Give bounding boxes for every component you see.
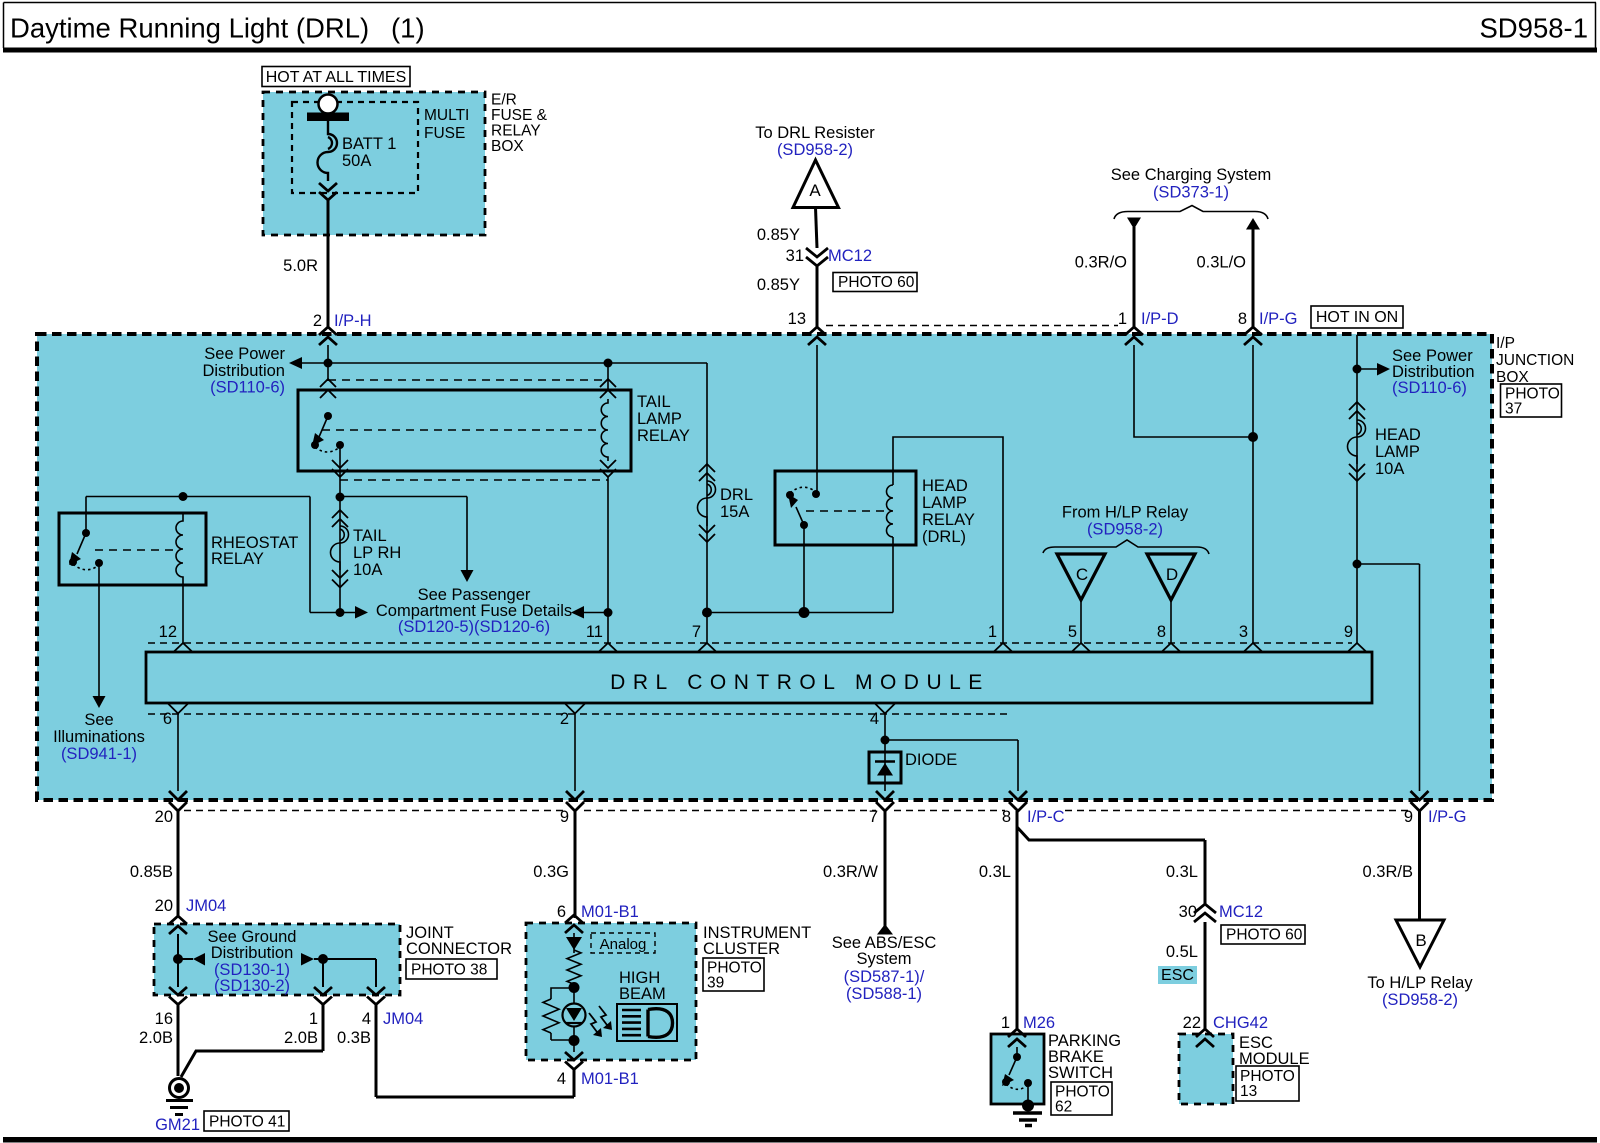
svg-text:3: 3 xyxy=(1239,623,1248,641)
svg-text:BOX: BOX xyxy=(491,138,524,155)
svg-text:I/P: I/P xyxy=(1496,335,1515,352)
rheostat coil xyxy=(176,513,183,585)
node diode branch xyxy=(881,736,890,745)
svg-text:(SD110-6): (SD110-6) xyxy=(1392,379,1467,397)
svg-text:5: 5 xyxy=(1068,623,1077,641)
svg-text:(SD941-1): (SD941-1) xyxy=(61,745,137,763)
jm04 exit chevrons pin 4 xyxy=(367,987,385,1005)
svg-text:0.3B: 0.3B xyxy=(337,1029,371,1047)
svg-text:(1): (1) xyxy=(391,13,425,44)
arrow to left power distribution xyxy=(289,357,302,369)
connector B xyxy=(1396,920,1444,967)
tail relay switch xyxy=(324,412,332,420)
svg-text:(SD958-2): (SD958-2) xyxy=(1382,991,1458,1009)
head relay coil xyxy=(887,485,894,537)
svg-text:2: 2 xyxy=(560,710,569,728)
svg-text:MC12: MC12 xyxy=(1219,903,1263,921)
svg-text:1: 1 xyxy=(988,623,997,641)
svg-text:16: 16 xyxy=(155,1010,173,1028)
svg-text:20: 20 xyxy=(155,897,173,915)
svg-text:0.3L: 0.3L xyxy=(1166,863,1198,881)
wire head relay coil top to pin 1 xyxy=(893,437,1003,643)
svg-text:I/P-G: I/P-G xyxy=(1428,808,1467,826)
wire led xyxy=(573,984,575,1004)
wire 0.3L right branch xyxy=(1017,827,1205,904)
svg-text:I/P-C: I/P-C xyxy=(1027,808,1065,826)
label Analog xyxy=(591,933,655,953)
svg-text:A: A xyxy=(809,181,821,200)
relay TAIL LAMP RELAY box xyxy=(298,390,631,471)
svg-text:Distribution: Distribution xyxy=(202,362,285,380)
JOINT CONNECTOR JM04 box xyxy=(154,924,400,995)
right See Power Distribution note xyxy=(1356,335,1358,643)
head relay internal dashed xyxy=(806,510,886,512)
svg-text:22: 22 xyxy=(1183,1014,1201,1032)
svg-text:13: 13 xyxy=(1240,1083,1257,1100)
jm04 internal wires xyxy=(178,934,376,987)
arrow up to charging system xyxy=(1246,218,1260,230)
fuse BATT 1 50A terminal circle xyxy=(319,95,338,114)
jm04 exit chevrons pin 1 xyxy=(314,987,332,1005)
relay HEAD LAMP RELAY box xyxy=(775,471,916,545)
wire I/P-D feed xyxy=(1134,345,1253,437)
svg-text:D: D xyxy=(1166,565,1178,584)
svg-text:SWITCH: SWITCH xyxy=(1048,1064,1113,1082)
svg-text:4: 4 xyxy=(557,1070,566,1088)
box-bottom connector pin 9 (0.3G) xyxy=(566,791,584,811)
parking brake ground xyxy=(1027,1083,1029,1102)
svg-text:20: 20 xyxy=(155,808,173,826)
node on tail relay coil wire xyxy=(604,359,613,368)
svg-text:4: 4 xyxy=(362,1010,371,1028)
node cluster bottom xyxy=(569,1035,580,1046)
svg-text:From H/LP Relay: From H/LP Relay xyxy=(1062,504,1189,522)
tail relay exit chevrons right xyxy=(600,460,616,477)
fuse TAIL LP RH 10A xyxy=(332,510,348,527)
wire 0.85B xyxy=(177,811,180,916)
svg-text:12: 12 xyxy=(159,623,177,641)
svg-text:9: 9 xyxy=(1344,623,1353,641)
svg-text:9: 9 xyxy=(1404,808,1413,826)
svg-text:M26: M26 xyxy=(1023,1014,1055,1032)
svg-text:8: 8 xyxy=(1002,808,1011,826)
wire pin2 to relay xyxy=(327,345,329,381)
svg-text:2.0B: 2.0B xyxy=(139,1029,173,1047)
wire I/P-G feed to pin 3 xyxy=(1252,345,1254,643)
svg-text:Analog: Analog xyxy=(600,936,647,953)
node above fuse TAIL LP RH xyxy=(336,493,345,502)
svg-text:LP RH: LP RH xyxy=(353,544,401,562)
svg-text:FUSE: FUSE xyxy=(424,125,465,142)
svg-text:I/P-D: I/P-D xyxy=(1141,310,1179,328)
node DRL fuse bottom xyxy=(702,608,712,618)
svg-text:0.85B: 0.85B xyxy=(130,863,173,881)
svg-text:1: 1 xyxy=(1001,1014,1010,1032)
svg-text:HEAD: HEAD xyxy=(922,477,968,495)
svg-text:PHOTO 60: PHOTO 60 xyxy=(1226,927,1303,944)
svg-text:62: 62 xyxy=(1055,1099,1072,1116)
svg-text:I/P-G: I/P-G xyxy=(1259,310,1298,328)
svg-text:0.3R/B: 0.3R/B xyxy=(1363,863,1413,881)
bottom connector dashed row xyxy=(184,810,1412,812)
brace xyxy=(1114,206,1268,220)
wire 5.0R xyxy=(327,200,330,327)
wire 0.3L left xyxy=(1016,811,1019,1030)
box-bottom connector pin 9 I/P-G xyxy=(1411,791,1429,811)
svg-text:(SD130-2): (SD130-2) xyxy=(214,977,290,995)
svg-text:39: 39 xyxy=(707,975,724,992)
svg-text:0.3R/W: 0.3R/W xyxy=(823,863,878,881)
svg-text:7: 7 xyxy=(869,808,878,826)
tail relay entry chevrons left xyxy=(320,379,336,398)
svg-text:(SD588-1): (SD588-1) xyxy=(846,985,922,1003)
svg-text:M01-B1: M01-B1 xyxy=(581,903,639,921)
ESC MODULE box xyxy=(1179,1034,1233,1104)
fuse HEAD LAMP 10A xyxy=(1349,402,1365,419)
wire C to pin 5 xyxy=(1080,600,1082,643)
node on tail coil output xyxy=(604,608,613,617)
wire DRL fuse feed xyxy=(706,363,708,643)
wire 0.3R/W xyxy=(884,811,887,926)
svg-text:See Power: See Power xyxy=(204,345,285,363)
wire 0.3B xyxy=(376,1005,574,1097)
svg-text:FUSE &: FUSE & xyxy=(491,107,548,124)
photo flash arrow xyxy=(589,1013,597,1032)
svg-text:37: 37 xyxy=(1505,401,1522,418)
svg-text:See: See xyxy=(84,711,113,729)
svg-text:LAMP: LAMP xyxy=(1375,443,1420,461)
tail relay coil wire upper xyxy=(607,363,609,390)
arrow left to fuse details xyxy=(571,606,584,619)
node head lamp branch xyxy=(1353,560,1362,569)
resistor top xyxy=(567,950,581,984)
svg-text:JM04: JM04 xyxy=(186,897,226,915)
svg-text:DIODE: DIODE xyxy=(905,751,957,769)
svg-text:HEAD: HEAD xyxy=(1375,426,1421,444)
arrow down from charging system xyxy=(1127,218,1141,230)
wire head relay coil bottom xyxy=(892,537,894,613)
node below fuse TAIL LP RH xyxy=(336,608,345,617)
rheostat top bus xyxy=(86,497,310,534)
cluster exit xyxy=(573,1041,575,1052)
wire pin 6 down xyxy=(177,714,179,791)
svg-text:0.3L: 0.3L xyxy=(979,863,1011,881)
DRL CONTROL MODULE box xyxy=(146,652,1372,703)
svg-text:HOT AT ALL TIMES: HOT AT ALL TIMES xyxy=(266,69,407,86)
svg-text:0.85Y: 0.85Y xyxy=(757,226,800,244)
wire top bus xyxy=(302,362,707,364)
svg-text:LAMP: LAMP xyxy=(637,410,682,428)
wire to passenger compartment arrow xyxy=(340,497,467,571)
wire 0.3L/O xyxy=(1252,228,1255,327)
svg-text:0.3G: 0.3G xyxy=(533,863,569,881)
parking brake switch xyxy=(1016,1047,1018,1056)
svg-text:31: 31 xyxy=(786,247,804,265)
indicator lamp HIGH BEAM xyxy=(563,1004,586,1027)
box-bottom connector pin 7 (0.3R/W) xyxy=(876,791,894,811)
svg-text:4: 4 xyxy=(870,710,879,728)
rheostat internal dashed xyxy=(95,549,174,551)
PARKING BRAKE SWITCH box xyxy=(991,1034,1044,1104)
svg-text:0.5L: 0.5L xyxy=(1166,943,1198,961)
svg-text:(SD587-1)/: (SD587-1)/ xyxy=(844,968,925,986)
ESC highlight xyxy=(1158,966,1197,984)
tail relay exit chevrons left xyxy=(332,460,348,477)
svg-text:HOT IN ON: HOT IN ON xyxy=(1316,309,1398,326)
svg-text:(SD120-5)(SD120-6): (SD120-5)(SD120-6) xyxy=(398,618,550,636)
fuse DRL 15A xyxy=(699,464,715,481)
arrow right to fuse details xyxy=(355,606,368,619)
svg-text:15A: 15A xyxy=(720,503,749,521)
svg-text:6: 6 xyxy=(163,710,172,728)
MULTI FUSE inner box xyxy=(292,102,418,193)
svg-text:SD958-1: SD958-1 xyxy=(1479,13,1588,44)
svg-text:10A: 10A xyxy=(1375,460,1404,478)
arrow to ground distribution right xyxy=(301,953,314,966)
svg-text:RELAY: RELAY xyxy=(922,511,975,529)
connector chevrons below fuse xyxy=(319,183,337,200)
wire rheostat switch to illuminations xyxy=(98,563,100,696)
svg-text:11: 11 xyxy=(586,623,603,641)
svg-text:C: C xyxy=(1076,565,1088,584)
svg-text:1: 1 xyxy=(1118,310,1127,328)
tail relay coil xyxy=(601,399,608,461)
node rheostat coil top xyxy=(179,492,188,501)
module pin row dashed top xyxy=(148,642,1352,644)
svg-text:PHOTO 60: PHOTO 60 xyxy=(838,274,915,291)
svg-text:0.3R/O: 0.3R/O xyxy=(1075,254,1127,272)
node charging join xyxy=(1248,432,1258,442)
fuse BATT 1 50A bar xyxy=(307,113,349,122)
title bar xyxy=(3,48,1597,53)
high beam icon xyxy=(617,1004,677,1041)
dashed link below tail relay xyxy=(340,479,608,481)
wire pin 4 down xyxy=(884,714,886,791)
svg-text:PHOTO 41: PHOTO 41 xyxy=(209,1114,285,1131)
svg-text:1: 1 xyxy=(309,1010,318,1028)
svg-text:M01-B1: M01-B1 xyxy=(581,1070,639,1088)
connector D xyxy=(1147,554,1195,600)
wire 0.3G xyxy=(574,811,577,918)
svg-text:TAIL: TAIL xyxy=(353,527,387,545)
svg-text:B: B xyxy=(1415,931,1426,950)
ground GM21 xyxy=(170,1079,189,1098)
svg-text:See Charging System: See Charging System xyxy=(1111,166,1272,184)
node jm04 right xyxy=(318,954,328,964)
svg-text:50A: 50A xyxy=(342,152,371,170)
wire head relay switch output xyxy=(803,525,805,613)
node jm04 left xyxy=(173,954,183,964)
svg-text:(SD373-1): (SD373-1) xyxy=(1153,184,1229,202)
svg-text:CHG42: CHG42 xyxy=(1213,1014,1268,1032)
wire head relay bottom bus xyxy=(707,612,893,614)
box-bottom connector pin 20 xyxy=(169,791,187,811)
wire pin 2 down xyxy=(574,714,576,791)
svg-text:PHOTO 38: PHOTO 38 xyxy=(411,962,487,979)
wire 2.0B right to ground xyxy=(181,1005,323,1077)
svg-text:CONNECTOR: CONNECTOR xyxy=(406,940,512,958)
jm04 exit chevrons pin 16 xyxy=(169,987,187,1005)
svg-text:CLUSTER: CLUSTER xyxy=(703,940,780,958)
bottom bar xyxy=(3,1137,1597,1143)
svg-text:I/P-H: I/P-H xyxy=(334,312,372,330)
label HOT IN ON xyxy=(1311,306,1403,328)
svg-text:(SD958-2): (SD958-2) xyxy=(777,141,853,159)
svg-text:0.85Y: 0.85Y xyxy=(757,276,800,294)
svg-text:LAMP: LAMP xyxy=(922,494,967,512)
svg-text:JM04: JM04 xyxy=(383,1010,423,1028)
svg-text:(SD958-2): (SD958-2) xyxy=(1087,521,1163,539)
arrow to ground distribution left xyxy=(193,953,205,966)
svg-text:JUNCTION: JUNCTION xyxy=(1496,352,1574,369)
wire 0.3R/O xyxy=(1133,227,1136,327)
svg-text:TAIL: TAIL xyxy=(637,393,671,411)
svg-text:System: System xyxy=(856,950,911,968)
wire tail coil to pin 11 xyxy=(607,477,609,643)
wire 0.3R/B xyxy=(1418,811,1421,920)
svg-text:MULTI: MULTI xyxy=(424,107,469,124)
svg-text:RELAY: RELAY xyxy=(491,123,541,140)
wire branch to bottom pin 9 xyxy=(1357,564,1420,791)
svg-text:RELAY: RELAY xyxy=(211,550,264,568)
svg-text:(DRL): (DRL) xyxy=(922,528,966,546)
dashed link above tail relay xyxy=(328,379,608,381)
E/R FUSE & RELAY BOX xyxy=(263,92,485,235)
wire 0.85Y lower xyxy=(816,266,819,327)
cluster feed arrow xyxy=(573,933,575,953)
wire 0.5L xyxy=(1204,922,1207,1030)
svg-text:13: 13 xyxy=(788,310,806,328)
rheostat switch xyxy=(82,529,90,537)
relay RHEOSTAT RELAY box xyxy=(59,513,206,585)
fuse BATT 1 50A fusible link xyxy=(318,121,338,181)
svg-text:8: 8 xyxy=(1238,310,1247,328)
svg-text:RELAY: RELAY xyxy=(637,427,690,445)
connector C xyxy=(1057,554,1105,600)
label PHOTO 60 xyxy=(833,273,917,292)
svg-text:(SD110-6): (SD110-6) xyxy=(210,379,285,397)
svg-text:5.0R: 5.0R xyxy=(283,257,318,275)
tail relay internal dashed xyxy=(322,429,598,431)
svg-text:BEAM: BEAM xyxy=(619,985,666,1003)
wire diode branch to I/P-C xyxy=(885,740,1018,791)
svg-text:E/R: E/R xyxy=(491,92,517,109)
svg-text:GM21: GM21 xyxy=(155,1116,200,1134)
svg-text:Distribution: Distribution xyxy=(211,944,294,962)
node on pin2 wire xyxy=(324,359,333,368)
I/P junction box (main) xyxy=(37,334,1492,800)
brace from H/LP relay xyxy=(1043,540,1209,554)
diode DIODE xyxy=(869,752,901,783)
wire 2.0B left to ground xyxy=(177,1005,180,1076)
INSTRUMENT CLUSTER box xyxy=(526,923,696,1060)
wire 0.85Y upper xyxy=(816,208,818,249)
node head relay switch output xyxy=(799,607,810,618)
label HOT AT ALL TIMES xyxy=(262,67,410,87)
svg-text:0.3L/O: 0.3L/O xyxy=(1196,254,1246,272)
module pin row dashed bottom xyxy=(148,713,1010,715)
wire rheostat coil to pin 12 xyxy=(182,585,184,643)
wire pin13 to head relay switch xyxy=(816,345,818,494)
page border xyxy=(4,3,1597,49)
tail relay entry chevrons right xyxy=(600,379,616,398)
svg-text:10A: 10A xyxy=(353,561,382,579)
svg-text:9: 9 xyxy=(560,808,569,826)
svg-text:ESC: ESC xyxy=(1161,967,1194,984)
wire lower link row xyxy=(310,497,608,613)
svg-text:DRL: DRL xyxy=(720,486,753,504)
svg-text:Illuminations: Illuminations xyxy=(53,728,145,746)
svg-text:Daytime Running Light (DRL): Daytime Running Light (DRL) xyxy=(10,13,369,44)
svg-text:8: 8 xyxy=(1157,623,1166,641)
svg-text:BATT 1: BATT 1 xyxy=(342,135,396,153)
node cluster top xyxy=(569,982,580,993)
svg-text:DRL CONTROL MODULE: DRL CONTROL MODULE xyxy=(610,671,990,694)
svg-text:6: 6 xyxy=(557,903,566,921)
shunt resistor xyxy=(551,988,574,1040)
arrow to ABS/ESC xyxy=(877,924,893,935)
svg-text:7: 7 xyxy=(692,623,701,641)
tail relay switch output wire xyxy=(339,445,341,613)
head relay switch xyxy=(812,490,820,498)
svg-text:2.0B: 2.0B xyxy=(284,1029,318,1047)
svg-text:2: 2 xyxy=(313,312,322,330)
svg-text:To DRL Resister: To DRL Resister xyxy=(755,124,875,142)
svg-text:MC12: MC12 xyxy=(828,247,872,265)
box-bottom connector pin 8 I/P-C xyxy=(1009,791,1027,811)
wire D to pin 8 xyxy=(1170,600,1172,643)
svg-text:To H/LP Relay: To H/LP Relay xyxy=(1367,974,1473,992)
